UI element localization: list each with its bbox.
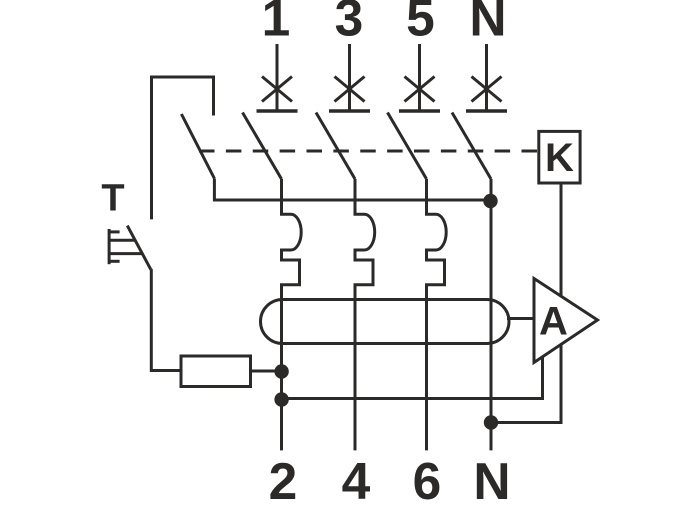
svg-text:6: 6 — [413, 452, 442, 500]
svg-text:5: 5 — [406, 0, 435, 47]
svg-text:T: T — [101, 177, 124, 219]
svg-text:N: N — [473, 452, 510, 500]
svg-text:3: 3 — [335, 0, 364, 47]
svg-text:4: 4 — [342, 452, 371, 500]
svg-text:2: 2 — [269, 452, 298, 500]
svg-text:A: A — [539, 299, 568, 343]
svg-text:K: K — [545, 136, 574, 180]
svg-text:N: N — [469, 0, 506, 47]
svg-text:1: 1 — [262, 0, 291, 47]
